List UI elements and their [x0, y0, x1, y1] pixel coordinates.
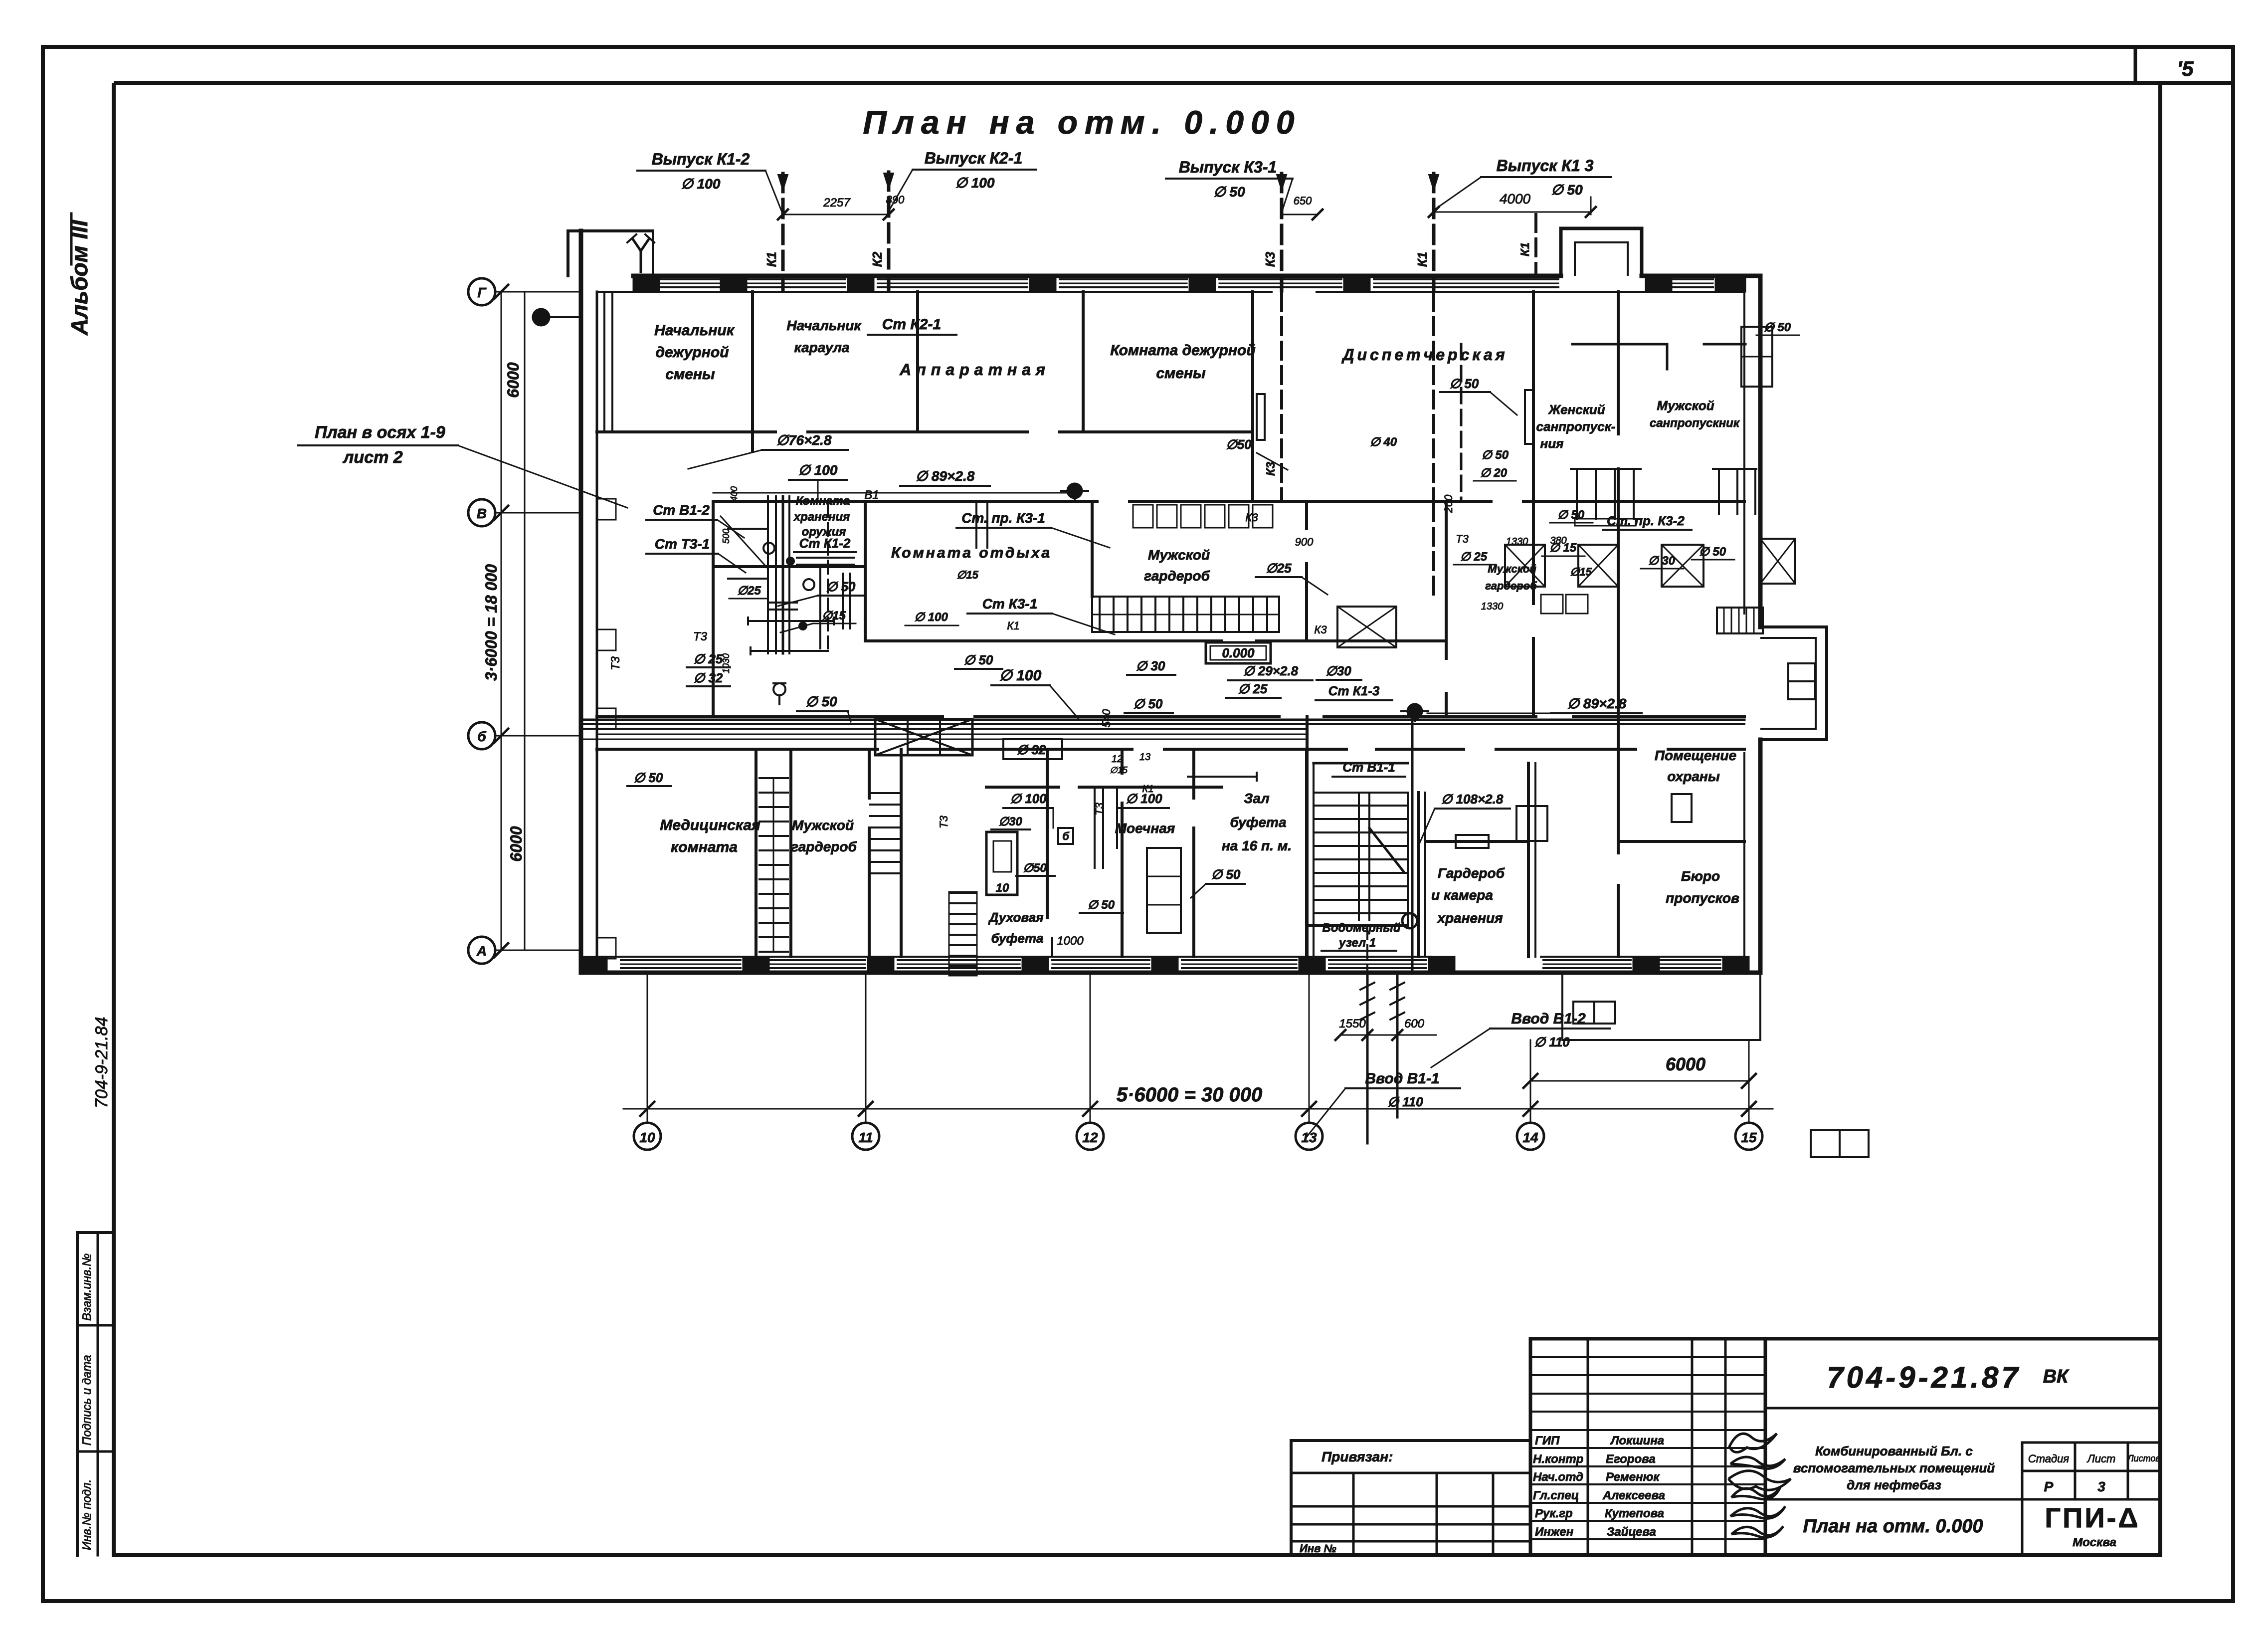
svg-text:охраны: охраны — [1667, 769, 1720, 784]
svg-text:0.000: 0.000 — [1222, 645, 1255, 660]
svg-text:200: 200 — [1442, 494, 1455, 513]
axis circle В — [468, 499, 495, 526]
site double square lower right — [1811, 1130, 1869, 1157]
svg-text:План на отм. 0.000: План на отм. 0.000 — [863, 104, 1301, 141]
svg-text:Комната отдыха: Комната отдыха — [891, 545, 1052, 561]
svg-text:500: 500 — [721, 529, 731, 544]
svg-text:∅ 100: ∅ 100 — [955, 175, 995, 191]
svg-text:Привязан:: Привязан: — [1322, 1449, 1393, 1464]
svg-text:∅ 25: ∅ 25 — [694, 651, 723, 666]
svg-text:∅25: ∅25 — [1266, 561, 1292, 576]
dimension 6000 right — [1530, 1080, 1749, 1082]
svg-text:на 16 п. м.: на 16 п. м. — [1222, 838, 1292, 853]
pipe stub буфет — [1188, 776, 1257, 778]
svg-text:∅25: ∅25 — [737, 584, 761, 598]
svg-text:3: 3 — [2097, 1479, 2105, 1494]
axis circle б — [468, 722, 495, 749]
svg-text:хранения: хранения — [1436, 910, 1503, 926]
title block outline top — [1530, 1337, 2160, 1341]
svg-text:∅ 50: ∅ 50 — [1134, 696, 1163, 711]
svg-text:Кутепова: Кутепова — [1605, 1507, 1664, 1520]
bottom exterior wall inner face — [597, 956, 1431, 958]
svg-text:Т3: Т3 — [693, 630, 708, 643]
svg-text:∅ 20: ∅ 20 — [1480, 466, 1508, 480]
revision table column — [76, 1233, 79, 1555]
svg-text:узел 1: узел 1 — [1338, 936, 1376, 950]
svg-text:Ст К2-1: Ст К2-1 — [882, 316, 941, 333]
axis А line — [495, 950, 581, 951]
sewer riser К1-2 — [781, 174, 785, 291]
svg-text:Ст К1-3: Ст К1-3 — [1328, 683, 1380, 698]
partition bottom V x2250 — [1121, 749, 1124, 773]
svg-text:∅ 100: ∅ 100 — [798, 462, 838, 478]
axis Г line — [495, 291, 581, 293]
svg-text:Выпуск К1-2: Выпуск К1-2 — [652, 150, 750, 168]
svg-text:∅ 50: ∅ 50 — [826, 579, 856, 594]
sewer riser К3 internal — [1280, 293, 1283, 500]
water inlet pipe В1-1 — [1396, 973, 1399, 1117]
svg-text:∅76×2.8: ∅76×2.8 — [776, 432, 832, 448]
svg-text:Выпуск К3-1: Выпуск К3-1 — [1179, 158, 1277, 176]
svg-text:∅ 50: ∅ 50 — [1482, 448, 1509, 462]
svg-text:Комбинированный Бл. с: Комбинированный Бл. с — [1815, 1444, 1973, 1458]
svg-text:санпропускник: санпропускник — [1650, 416, 1740, 430]
stair S5 main staircase — [1314, 793, 1408, 925]
svg-text:704-9-21.84: 704-9-21.84 — [92, 1017, 111, 1108]
axis 13 line — [1309, 974, 1310, 1123]
svg-text:Стадия: Стадия — [2028, 1452, 2070, 1465]
reference note leader — [458, 445, 627, 508]
svg-text:гардероб: гардероб — [791, 839, 857, 854]
svg-text:К1: К1 — [1518, 242, 1532, 256]
svg-text:К1: К1 — [1007, 619, 1019, 632]
partition bottom V x2100 — [1046, 749, 1049, 918]
svg-text:К3: К3 — [1314, 623, 1327, 636]
svg-text:∅ 50: ∅ 50 — [805, 694, 837, 709]
svg-text:14: 14 — [1522, 1130, 1538, 1145]
svg-text:ВК: ВК — [2043, 1366, 2070, 1387]
axis circle 14 — [1517, 1123, 1544, 1150]
svg-text:Комната дежурной: Комната дежурной — [1110, 342, 1255, 359]
svg-text:∅50: ∅50 — [1226, 437, 1252, 452]
bottom wall windows and piers — [621, 959, 741, 961]
svg-text:∅ 50: ∅ 50 — [964, 652, 993, 667]
svg-text:Мужской: Мужской — [792, 818, 854, 833]
гардероб top wall with pipe — [1425, 840, 1528, 843]
svg-text:Ст В1-1: Ст В1-1 — [1342, 760, 1395, 775]
sheet number box divider — [2134, 47, 2137, 83]
interior wall водомерный узел top — [1307, 924, 1408, 927]
svg-text:ния: ния — [1540, 436, 1564, 451]
top exterior wall inner face — [597, 291, 1272, 293]
porch step double square — [1573, 1002, 1615, 1024]
svg-text:∅ 100: ∅ 100 — [999, 667, 1042, 684]
svg-text:Ст. пр. К3-1: Ст. пр. К3-1 — [961, 510, 1045, 526]
svg-text:Женский: Женский — [1547, 402, 1605, 417]
axis 10 line — [647, 974, 648, 1123]
водомер valve — [1402, 913, 1417, 928]
оружейная piping cluster — [767, 496, 769, 653]
vent stack symbol Y — [640, 251, 642, 272]
left wall pipe chase — [603, 292, 605, 432]
svg-text:Гл.спец: Гл.спец — [1533, 1489, 1579, 1502]
axis circle 12 — [1077, 1123, 1104, 1150]
svg-text:План на отм. 0.000: План на отм. 0.000 — [1803, 1516, 1983, 1537]
дисп window box — [1525, 390, 1533, 444]
svg-text:Диспетчерская: Диспетчерская — [1341, 346, 1508, 364]
svg-text:890: 890 — [886, 194, 905, 206]
svg-text:Егорова: Егорова — [1606, 1452, 1656, 1466]
svg-text:∅ 25: ∅ 25 — [1238, 681, 1268, 696]
svg-text:∅ 50: ∅ 50 — [1088, 898, 1115, 912]
svg-text:К2: К2 — [870, 251, 885, 267]
partition V8 оружейная right — [864, 501, 867, 641]
санпропускник shower stalls right — [1713, 468, 1756, 470]
title block name cell lines — [1765, 1498, 2160, 1501]
svg-text:Мужской: Мужской — [1488, 563, 1536, 575]
svg-text:А: А — [476, 943, 487, 959]
svg-text:∅ 30: ∅ 30 — [1136, 658, 1165, 673]
corridor X box vent — [875, 719, 972, 755]
svg-text:6000: 6000 — [504, 362, 522, 398]
title block line under number — [1765, 1407, 2160, 1410]
partition stair shaft S1 walls — [755, 749, 757, 957]
svg-text:5·6000 = 30 000: 5·6000 = 30 000 — [1117, 1084, 1262, 1106]
svg-text:смены: смены — [1156, 365, 1206, 382]
sewer riser К3-1 — [1280, 174, 1284, 291]
svg-text:900: 900 — [1295, 536, 1314, 548]
top exterior wall outer face — [633, 274, 1561, 278]
svg-text:санпропуск-: санпропуск- — [1536, 419, 1616, 434]
duct box X2 — [1578, 545, 1618, 587]
axis circle 13 — [1296, 1123, 1323, 1150]
partition V6 санпропускник divider — [1617, 292, 1620, 434]
svg-text:6000: 6000 — [1666, 1054, 1705, 1074]
svg-text:В: В — [477, 506, 487, 521]
svg-text:Т3: Т3 — [609, 656, 622, 670]
svg-text:К1: К1 — [1142, 784, 1154, 795]
svg-text:'5: '5 — [2177, 57, 2194, 80]
svg-text:600: 600 — [1404, 1017, 1425, 1031]
svg-text:Н.контр: Н.контр — [1533, 1452, 1583, 1466]
svg-text:Аппаратная: Аппаратная — [899, 361, 1050, 379]
signature squiggles — [1729, 1434, 1777, 1452]
svg-text:∅ 100: ∅ 100 — [914, 611, 948, 624]
svg-text:704-9-21.87: 704-9-21.87 — [1827, 1361, 2021, 1394]
svg-text:400: 400 — [729, 486, 739, 501]
svg-text:для нефтебаз: для нефтебаз — [1847, 1477, 1941, 1492]
svg-text:Т3: Т3 — [938, 815, 950, 828]
стояк В1-1 pipe — [1411, 717, 1414, 973]
svg-text:б: б — [477, 729, 486, 744]
svg-text:∅ 89×2.8: ∅ 89×2.8 — [916, 468, 975, 484]
interior wall H7 right rooms divider — [1618, 840, 1744, 843]
svg-text:К1: К1 — [764, 252, 779, 267]
svg-text:∅15: ∅15 — [1110, 765, 1128, 775]
wall моечная-буфет — [1192, 749, 1195, 798]
svg-text:Духовая: Духовая — [988, 910, 1043, 925]
svg-text:1330: 1330 — [1481, 601, 1504, 612]
svg-text:дежурной: дежурной — [655, 344, 729, 361]
svg-text:смены: смены — [665, 366, 715, 383]
svg-text:∅ 29×2.8: ∅ 29×2.8 — [1243, 663, 1299, 678]
title block signature table verticals — [1529, 1339, 1532, 1555]
санпропускник upper walls — [1572, 343, 1667, 346]
svg-text:Зал: Зал — [1244, 791, 1269, 806]
svg-text:∅ 100: ∅ 100 — [681, 176, 721, 192]
svg-text:Моечная: Моечная — [1115, 821, 1175, 836]
svg-text:∅ 50: ∅ 50 — [634, 770, 663, 785]
svg-text:Подпись и дата: Подпись и дата — [80, 1355, 94, 1445]
partition V5 санпропускник left — [1532, 292, 1535, 501]
svg-text:∅ 50: ∅ 50 — [1213, 184, 1245, 200]
partition V3 — [1082, 292, 1085, 432]
svg-text:Ременюк: Ременюк — [1606, 1470, 1660, 1484]
axis 14 line — [1530, 1040, 1531, 1123]
interior wall H5 main corridor bottom — [597, 748, 878, 751]
duct box X1 — [1505, 545, 1545, 587]
svg-text:Ввод В1-2: Ввод В1-2 — [1511, 1011, 1586, 1027]
partition V9 отдыха right — [1091, 501, 1094, 597]
pipe В1 horizontal — [713, 492, 1067, 494]
svg-text:Ввод В1-1: Ввод В1-1 — [1365, 1070, 1439, 1087]
svg-text:Москва: Москва — [2073, 1536, 2116, 1549]
svg-text:б: б — [1062, 830, 1070, 842]
svg-text:∅ 89×2.8: ∅ 89×2.8 — [1567, 696, 1627, 711]
svg-text:Алексеева: Алексеева — [1602, 1489, 1665, 1502]
left exterior wall — [579, 231, 583, 973]
axis circle 15 — [1735, 1123, 1762, 1150]
inlet dimension 1550 600 — [1340, 1034, 1436, 1036]
svg-text:540: 540 — [1100, 709, 1113, 727]
bottom right porch outline — [1562, 974, 1760, 1040]
svg-text:Листов: Листов — [2127, 1453, 2160, 1463]
stair S2 — [870, 792, 900, 794]
partition V10 — [1305, 501, 1308, 529]
partition V10b — [1445, 501, 1448, 658]
svg-text:Мужской: Мужской — [1657, 398, 1714, 413]
svg-text:∅ 25: ∅ 25 — [1460, 550, 1488, 564]
sewer riser К1-3 internal — [1432, 293, 1435, 500]
svg-text:Лист: Лист — [2086, 1452, 2116, 1465]
svg-text:Выпуск К2-1: Выпуск К2-1 — [925, 149, 1023, 167]
моечная sinks — [1147, 848, 1181, 933]
svg-text:Водомерный: Водомерный — [1323, 921, 1401, 935]
svg-text:13: 13 — [1139, 752, 1150, 763]
title block signature table rows — [1530, 1356, 1765, 1358]
interior wall H3 middle rooms bottom — [865, 639, 1222, 642]
axis circle 11 — [852, 1123, 879, 1150]
svg-text:12: 12 — [1112, 754, 1123, 765]
stair S3 small ladder — [950, 892, 976, 894]
stair S5 landing line — [1314, 762, 1408, 765]
top wall windows and piers — [661, 278, 721, 280]
svg-text:∅ 110: ∅ 110 — [1387, 1094, 1423, 1109]
svg-text:Помещение: Помещение — [1655, 748, 1736, 763]
partition V4 — [1251, 292, 1254, 501]
svg-text:и камера: и камера — [1431, 887, 1493, 903]
санпропускник small rects — [1541, 595, 1563, 614]
svg-text:Ст Т3-1: Ст Т3-1 — [655, 536, 710, 552]
дисп door leaf — [1257, 394, 1265, 440]
stair S4 corridor horizontal — [1092, 597, 1279, 632]
svg-text:Комната: Комната — [796, 494, 850, 508]
отдыха door jamb — [975, 501, 977, 548]
svg-text:Локшина: Локшина — [1610, 1434, 1664, 1447]
svg-text:1000: 1000 — [1057, 934, 1084, 948]
svg-text:вспомогательных помещений: вспомогательных помещений — [1793, 1460, 1995, 1475]
svg-text:Нач.отд: Нач.отд — [1533, 1470, 1583, 1484]
valve В1 corridor — [1068, 484, 1082, 498]
X box stair K1-3 — [1337, 607, 1396, 647]
sewer riser К2-1 — [887, 172, 891, 291]
гардероб right wall pilaster — [1516, 806, 1547, 841]
svg-text:Инв.№ подл.: Инв.№ подл. — [80, 1479, 94, 1550]
svg-text:12: 12 — [1082, 1130, 1098, 1145]
svg-text:∅15: ∅15 — [956, 569, 978, 581]
stair S5 left wall — [1306, 717, 1309, 957]
svg-text:Р: Р — [2044, 1479, 2054, 1494]
svg-text:10: 10 — [996, 881, 1009, 895]
right exterior wall — [1758, 276, 1763, 627]
interior wall H1 below top rooms — [597, 430, 775, 433]
corridor pipe lines — [581, 719, 1744, 721]
svg-text:лист 2: лист 2 — [342, 448, 403, 467]
svg-text:буфета: буфета — [1230, 815, 1286, 830]
axis circle Г — [468, 278, 495, 305]
водомерный узел fixture — [1366, 925, 1368, 973]
svg-text:Зайцева: Зайцева — [1607, 1525, 1656, 1539]
bottom exterior wall outer face — [581, 971, 1760, 975]
axis б line — [495, 735, 581, 737]
dimension 2257 top — [783, 214, 889, 215]
svg-text:К3: К3 — [1263, 251, 1278, 267]
svg-text:∅ 32: ∅ 32 — [1017, 742, 1046, 757]
interior wall оружейная bottom — [713, 565, 865, 568]
entry door boxes — [1788, 663, 1815, 681]
water heater 10 — [986, 832, 1017, 895]
svg-text:∅ 50: ∅ 50 — [1557, 508, 1585, 522]
svg-text:1550: 1550 — [1339, 1017, 1366, 1031]
svg-text:хранения: хранения — [793, 510, 850, 524]
svg-text:буфета: буфета — [991, 931, 1044, 946]
partition гардероб right wall — [1527, 763, 1530, 957]
svg-text:К3: К3 — [1245, 511, 1258, 524]
box б — [1058, 828, 1073, 844]
svg-text:Ст К3-1: Ст К3-1 — [982, 596, 1038, 612]
bottom dimension line 5x6000 — [623, 1108, 1773, 1110]
axis В line — [495, 512, 581, 514]
stair S1 left vertical — [759, 777, 788, 779]
svg-text:2257: 2257 — [823, 196, 851, 209]
svg-text:ГИП: ГИП — [1535, 1434, 1560, 1447]
entry vestibule right protrusion — [1760, 627, 1827, 740]
svg-text:∅ 108×2.8: ∅ 108×2.8 — [1441, 792, 1504, 807]
svg-text:11: 11 — [858, 1130, 873, 1145]
svg-text:∅ 50: ∅ 50 — [1551, 182, 1583, 198]
sewer riser К1-3 — [1432, 174, 1436, 291]
svg-text:Инв №: Инв № — [1300, 1542, 1336, 1555]
axis 11 line — [865, 974, 867, 1123]
svg-text:ГПИ-Δ: ГПИ-Δ — [2045, 1502, 2140, 1533]
svg-text:Ст К1-2: Ст К1-2 — [799, 536, 851, 551]
svg-text:Начальник: Начальник — [786, 318, 862, 333]
left wall pilasters — [597, 499, 616, 520]
svg-text:6000: 6000 — [507, 826, 525, 861]
svg-text:∅ 15: ∅ 15 — [1549, 541, 1577, 555]
svg-text:∅ 40: ∅ 40 — [1370, 435, 1397, 449]
pipe sleeve on 108 line — [1456, 835, 1489, 848]
partition V7 оружейная left — [712, 501, 715, 717]
dimension 4000 top — [1434, 211, 1591, 213]
svg-text:пропусков: пропусков — [1666, 890, 1739, 906]
svg-text:К1: К1 — [1415, 252, 1430, 267]
interior wall H2 corridor upper — [713, 500, 1097, 503]
stair S7 ladder right — [1717, 608, 1763, 633]
svg-text:∅ 50: ∅ 50 — [1450, 376, 1479, 391]
svg-text:Рук.гр: Рук.гр — [1535, 1507, 1573, 1520]
svg-text:комната: комната — [671, 839, 738, 855]
left dimension chain lines — [501, 292, 502, 950]
inner drawing frame — [114, 81, 2232, 85]
elevation mark 0.000 — [1206, 642, 1271, 663]
svg-text:∅ 50: ∅ 50 — [1211, 867, 1241, 882]
axis circle 10 — [634, 1123, 661, 1150]
svg-text:3·6000 = 18 000: 3·6000 = 18 000 — [482, 564, 500, 681]
svg-text:Гардероб: Гардероб — [1438, 865, 1505, 881]
label 32 boxed — [1003, 739, 1062, 759]
svg-text:Взам.инв.№: Взам.инв.№ — [80, 1253, 94, 1321]
svg-text:Г: Г — [477, 285, 487, 300]
svg-text:Т3: Т3 — [1456, 533, 1469, 545]
оружейная extra pipes — [819, 569, 821, 648]
duct box X4 right wall — [1760, 539, 1795, 584]
svg-text:Бюро: Бюро — [1681, 868, 1720, 884]
svg-text:Медицинская: Медицинская — [660, 817, 760, 833]
svg-text:Ст. пр. К3-2: Ст. пр. К3-2 — [1607, 513, 1685, 528]
dimension 650 top — [1282, 214, 1318, 215]
привязан table — [1291, 1439, 1530, 1442]
cabinet right wall — [1741, 327, 1772, 387]
svg-text:∅30: ∅30 — [998, 815, 1022, 828]
valve corridor right — [1408, 704, 1422, 718]
svg-text:Выпуск К1 3: Выпуск К1 3 — [1497, 157, 1594, 175]
partition bottom V x1743 — [868, 749, 871, 798]
roof protrusion top right — [1561, 228, 1642, 276]
partition гардероб left wall — [1417, 793, 1420, 957]
top-left canopy — [568, 229, 653, 232]
partition bottom V x2620 — [1305, 749, 1308, 957]
svg-text:650: 650 — [1294, 195, 1312, 207]
svg-text:∅30: ∅30 — [1325, 663, 1351, 678]
riser dashed дисп — [1460, 344, 1463, 500]
svg-text:1030: 1030 — [721, 653, 731, 673]
mid pipes pair — [1094, 787, 1096, 868]
duct box X3 — [1662, 545, 1703, 587]
svg-text:караула: караула — [794, 340, 850, 355]
оружейная dashed riser — [827, 504, 829, 648]
axis circle А — [468, 937, 495, 964]
riser К1 right — [1534, 214, 1537, 275]
axis 12 line — [1090, 974, 1091, 1123]
partition охраны left wall — [1617, 717, 1620, 853]
svg-text:4000: 4000 — [1500, 191, 1531, 206]
partition V2 — [916, 292, 919, 432]
svg-text:Мужской: Мужской — [1148, 547, 1210, 563]
interior wall H4 main corridor top — [597, 715, 943, 718]
санпропускник shower stalls left — [1571, 468, 1641, 470]
svg-text:∅ 32: ∅ 32 — [694, 670, 723, 685]
